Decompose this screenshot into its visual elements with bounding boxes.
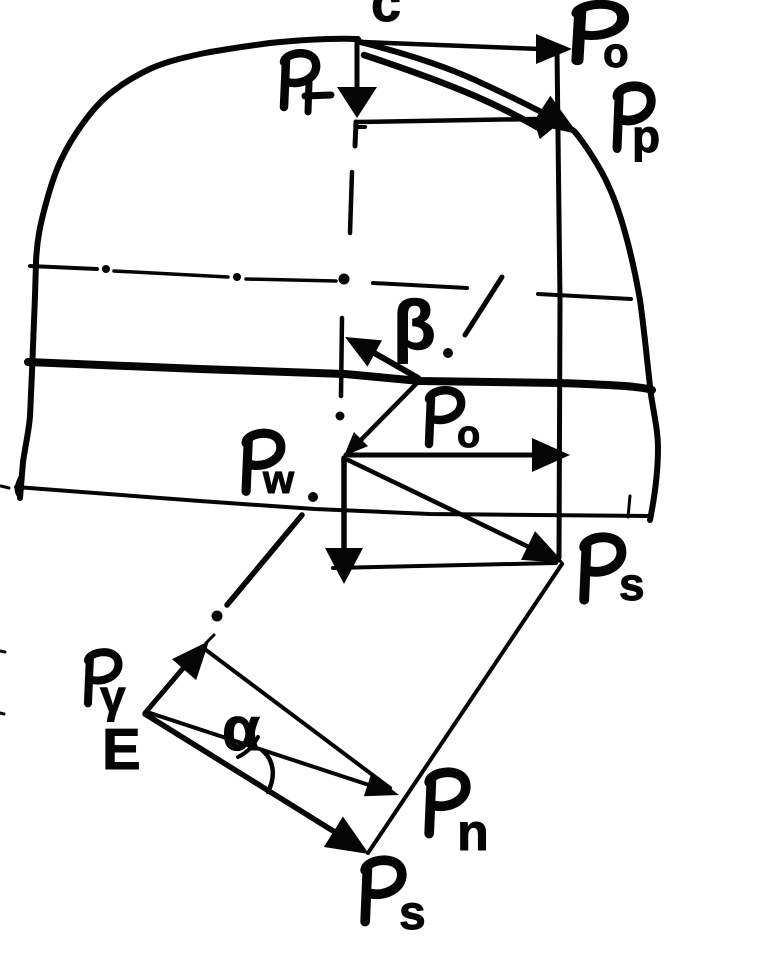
arrow P_o mid shaft (346, 453, 535, 458)
centre axis tick through band (341, 318, 342, 396)
dome outline left and top (20, 39, 358, 498)
svg-text:γ: γ (100, 670, 126, 722)
baseline of skirt (16, 487, 649, 516)
label P_o mid (429, 390, 461, 444)
diagonal dot (443, 348, 453, 358)
vertical construction line on right (557, 50, 560, 558)
svg-text:p: p (632, 110, 660, 162)
bottom horizontal line to P_s (333, 563, 556, 568)
arrow P_w shaft (341, 458, 347, 552)
small arrowhead at its right end (533, 110, 566, 140)
horizontal dash-dot centreline (30, 266, 97, 269)
svg-text:s: s (619, 558, 645, 610)
svg-text:E: E (102, 717, 141, 782)
P_r tip extension (206, 635, 214, 643)
arrow P_t shaft (355, 40, 360, 92)
label P_n (429, 772, 466, 833)
label P_o top (577, 4, 623, 60)
dash-dot centreline right segment (538, 294, 631, 299)
label P_w (246, 433, 281, 491)
svg-text:w: w (262, 458, 295, 502)
centre axis dash segment (350, 172, 352, 233)
arrow beta shaft (362, 346, 418, 378)
svg-text:β: β (393, 286, 436, 364)
arrow P_p head (532, 96, 587, 148)
arrow P_n shaft (147, 712, 372, 786)
thick band line (28, 362, 652, 390)
svg-text:n: n (457, 804, 489, 862)
lower diagonal dot (212, 611, 223, 622)
tiny bar on axis dash (357, 125, 365, 129)
arrowhead at centre (337, 432, 368, 463)
arrow P_n head (364, 773, 403, 806)
arrow P_t head (337, 87, 377, 118)
arrow P_p shaft (double stroke from apex) (364, 55, 537, 127)
svg-text:o: o (603, 29, 629, 76)
left edge speck near baseline (1, 486, 9, 488)
long line P_s point to bottom arrow tip (368, 564, 562, 853)
dome outline top-right curve (360, 42, 658, 520)
arrow P_o top head (536, 34, 572, 64)
svg-text:o: o (457, 414, 480, 456)
centre axis dot (336, 412, 345, 421)
centre axis dash below P_t arrow (355, 122, 356, 146)
arrow P_s bottom shaft (145, 714, 338, 834)
arrow P_o mid head (532, 438, 570, 472)
dash-dot diagonal lower segment (227, 515, 302, 605)
line P_r tip to P_n tip (206, 650, 390, 788)
label P_s bottom (365, 860, 402, 921)
label P_s upper (584, 537, 621, 599)
left edge speck lower (0, 713, 4, 714)
arrow P_r head (172, 631, 221, 681)
alpha tail (238, 737, 258, 757)
dash-dot diagonal upper (465, 277, 502, 335)
angle arc (262, 750, 273, 792)
dome left bottom hook (17, 478, 20, 497)
arrow P_o top shaft (362, 42, 540, 49)
horizontal line from P_t tip to right junction (356, 119, 535, 122)
line junction to centre with arrowhead (355, 380, 420, 446)
arrow P_s mid head (521, 531, 571, 577)
left edge speck mid (0, 651, 5, 652)
label P_t (284, 53, 316, 107)
baseline end tick (628, 496, 630, 517)
arrow P_s mid shaft (348, 460, 535, 550)
label P_r (gamma) (88, 652, 119, 703)
arrow P_s bottom head (324, 816, 379, 869)
svg-text:s: s (399, 887, 426, 940)
svg-text:c: c (371, 0, 401, 33)
arrow beta head (338, 324, 382, 367)
arrow P_r shaft (145, 666, 185, 713)
label P_p (617, 86, 651, 148)
arrow P_w head (325, 548, 363, 584)
